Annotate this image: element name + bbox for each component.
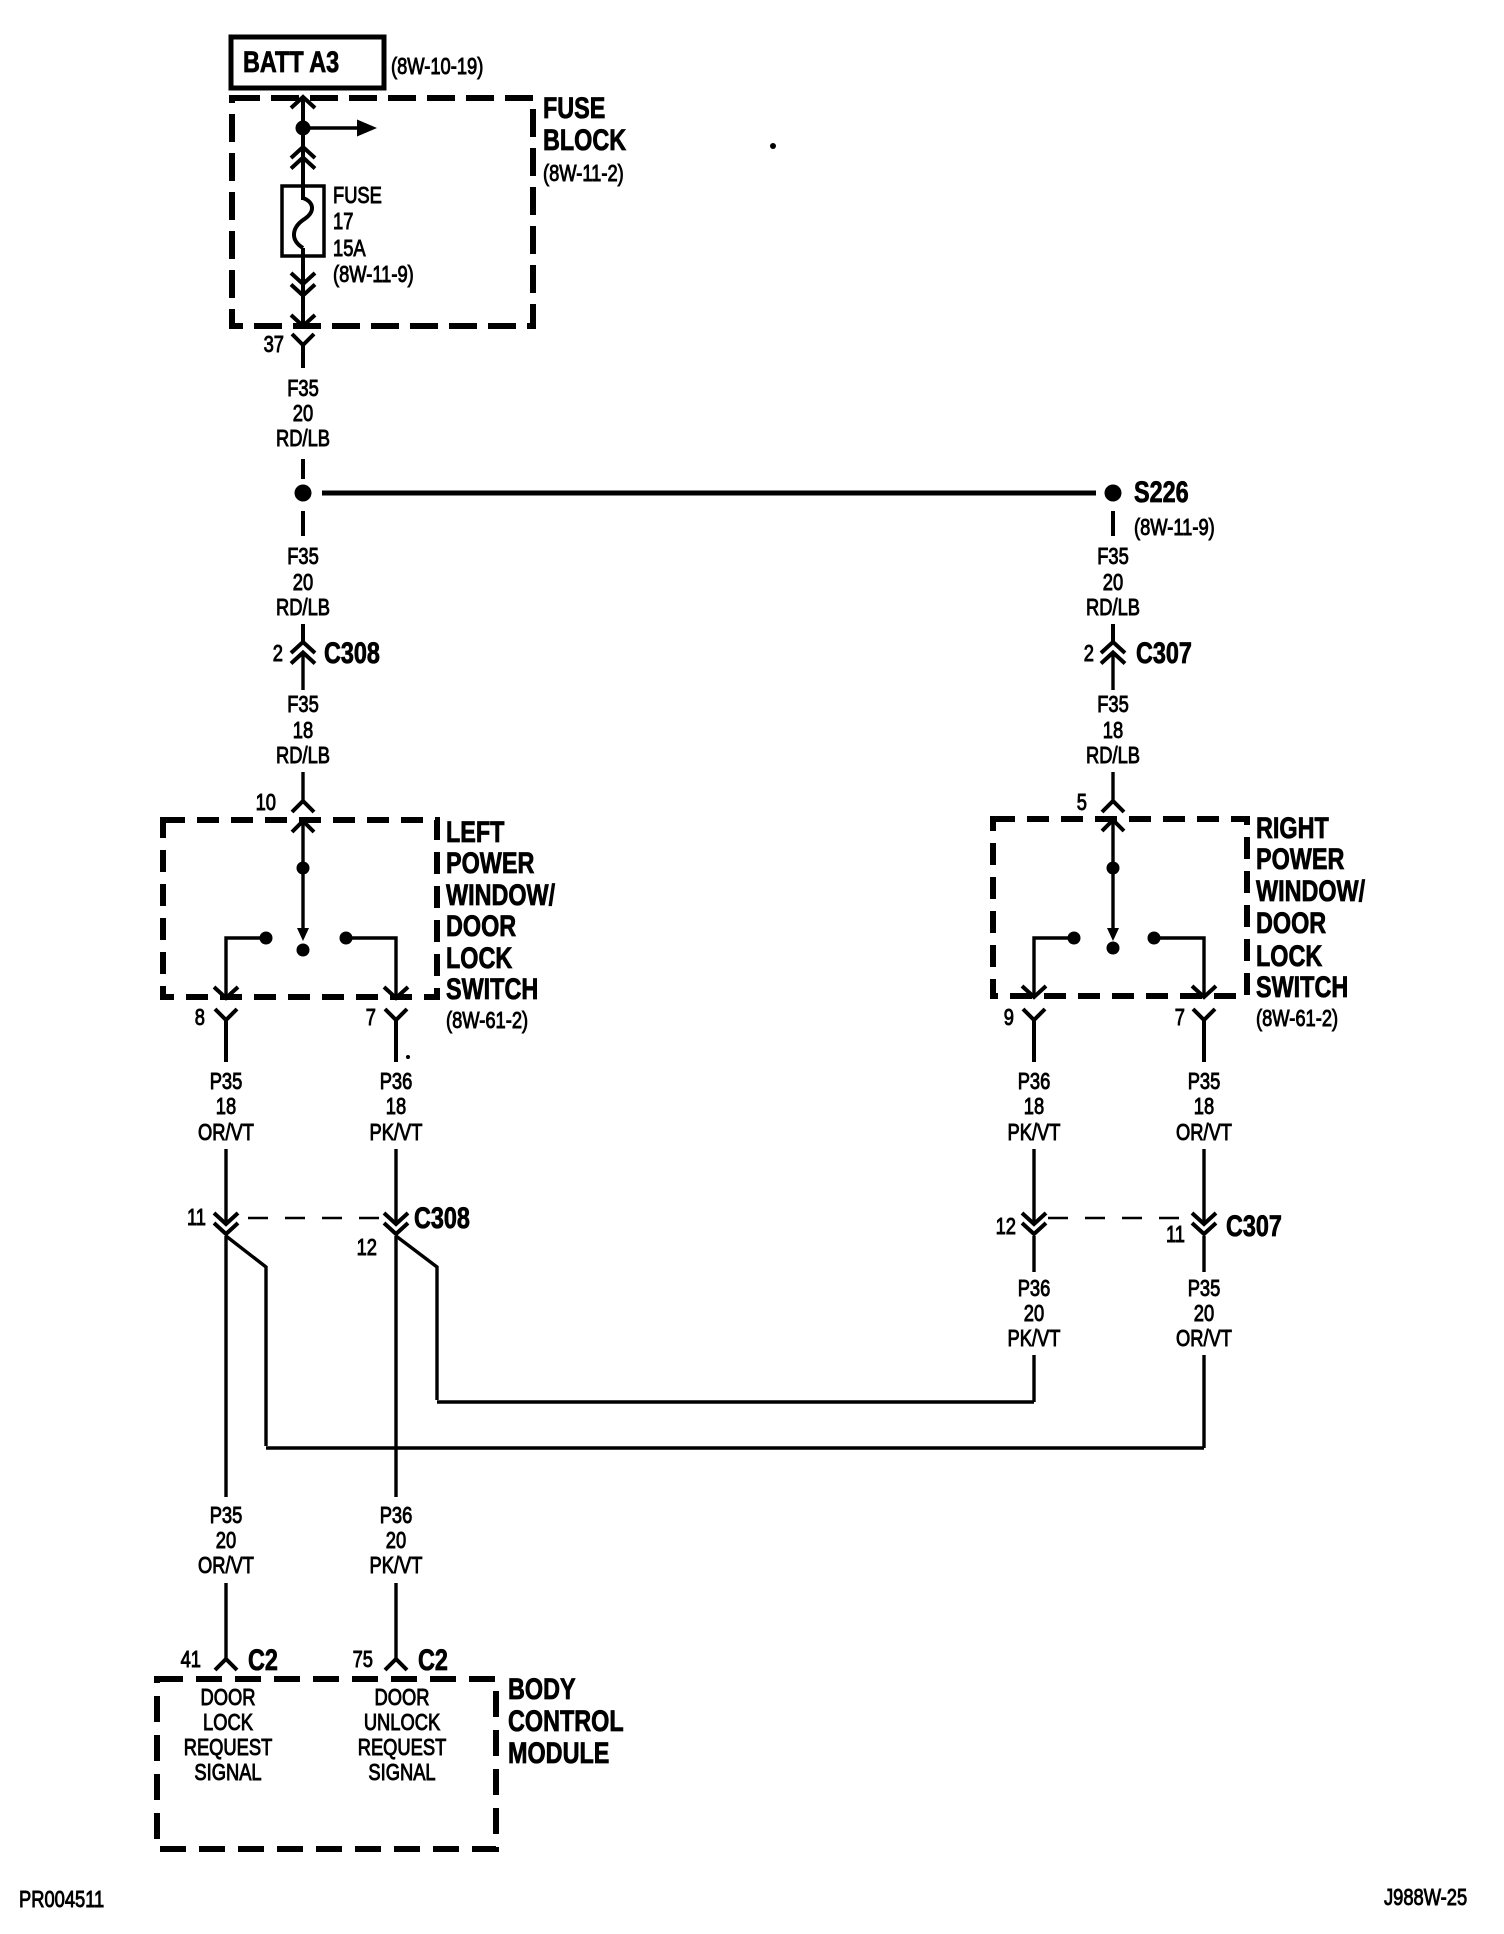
svg-text:LOCK: LOCK [446,941,513,974]
svg-text:BATT A3: BATT A3 [243,45,339,78]
wire label P35 18 OR/VT right [1176,1069,1232,1146]
splice bus wire [322,491,1096,496]
svg-text:RD/LB: RD/LB [1086,743,1140,769]
wire down to BCM pin 75 [394,1236,397,1497]
label (8W-10-19) [391,54,483,80]
connector pin 37 [264,332,314,368]
right power window/door lock switch dashed box [993,819,1247,996]
right switch unlock contact [1022,932,1081,998]
svg-text:10: 10 [256,790,276,816]
svg-text:(8W-11-9): (8W-11-9) [333,262,414,288]
connector pin 5 [1077,772,1124,816]
svg-text:20: 20 [386,1528,406,1554]
left wire label F35 20 RD/LB [276,544,330,621]
svg-text:C2: C2 [418,1643,448,1676]
svg-text:DOOR: DOOR [1256,906,1326,939]
svg-text:LEFT: LEFT [446,815,505,848]
svg-text:FUSE: FUSE [543,91,605,124]
svg-text:P35: P35 [210,1069,243,1095]
connector C307 pin 11 [1166,1213,1216,1248]
connector pin 10 [256,772,314,816]
svg-text:PK/VT: PK/VT [370,1553,423,1579]
svg-text:11: 11 [1166,1222,1185,1248]
wire label P35 20 OR/VT [198,1503,254,1579]
right switch lock contact [1148,932,1217,998]
connector C2 pin 41 [181,1643,278,1676]
left switch lock contact [214,932,273,999]
connector C2 pin 75 [353,1643,448,1676]
svg-text:18: 18 [216,1094,236,1120]
drawing number J988W-25 [1384,1885,1467,1911]
svg-text:20: 20 [293,570,313,596]
splice node left [295,485,312,502]
wire OR/VT crossover [266,1446,1204,1449]
svg-text:F35: F35 [287,692,319,718]
C308 dashed connector line [248,1217,385,1220]
svg-text:S226: S226 [1134,475,1189,508]
svg-text:SWITCH: SWITCH [446,972,538,1005]
svg-text:18: 18 [1194,1094,1214,1120]
svg-text:12: 12 [996,1214,1016,1240]
svg-text:SWITCH: SWITCH [1256,970,1348,1003]
connector C307 label [1226,1209,1282,1242]
svg-text:PR004511: PR004511 [19,1887,104,1913]
C307 dashed connector line [1048,1217,1190,1220]
door unlock request signal label [358,1685,447,1786]
svg-text:18: 18 [386,1094,406,1120]
door lock request signal label [184,1685,273,1786]
svg-text:P35: P35 [210,1503,243,1529]
svg-text:17: 17 [333,209,353,235]
left power window/door lock switch dashed box [163,820,437,997]
svg-text:(8W-61-2): (8W-61-2) [1256,1006,1338,1032]
svg-text:P35: P35 [1188,1276,1221,1302]
svg-text:20: 20 [293,401,313,427]
fuse F17 15A symbol [282,186,324,256]
wire with double chevron to fuse [291,132,315,200]
wire label P35 20 OR/VT right [1176,1276,1232,1352]
svg-text:(8W-61-2): (8W-61-2) [446,1008,528,1034]
svg-text:20: 20 [1024,1301,1044,1327]
svg-text:20: 20 [216,1528,236,1554]
svg-text:PK/VT: PK/VT [1008,1326,1061,1352]
svg-text:CONTROL: CONTROL [508,1704,624,1737]
left wire label F35 18 RD/LB [276,692,330,769]
svg-text:DOOR: DOOR [201,1685,256,1711]
wire label P35 18 OR/VT [198,1069,254,1146]
fuse block name label [543,91,627,186]
connector C308 label [414,1201,470,1234]
svg-text:41: 41 [181,1647,201,1673]
svg-text:C307: C307 [1136,636,1192,669]
connector C307 pin 2 [1084,624,1192,690]
svg-text:F35: F35 [1097,544,1129,570]
svg-text:RD/LB: RD/LB [276,743,330,769]
svg-text:P36: P36 [380,1503,413,1529]
svg-text:12: 12 [357,1235,377,1261]
svg-text:BODY: BODY [508,1672,576,1705]
svg-text:OR/VT: OR/VT [1176,1120,1232,1146]
wire to C308 pin 11 [224,1149,227,1224]
svg-text:C308: C308 [414,1201,470,1234]
left switch pin 8 [195,1005,237,1062]
right wire label F35 18 RD/LB [1086,692,1140,769]
svg-text:DOOR: DOOR [446,909,516,942]
connector C308 pin 11 [187,1205,238,1234]
svg-text:(8W-11-2): (8W-11-2) [543,161,624,187]
connector C308 pin 12 [357,1213,408,1261]
svg-text:(8W-10-19): (8W-10-19) [391,54,483,80]
wire arrow up into BATT A3 [291,97,315,124]
svg-text:BLOCK: BLOCK [543,123,627,156]
wire OR/VT to crossover [1202,1355,1205,1448]
svg-text:7: 7 [1175,1005,1185,1031]
battery feed box BATT A3 [231,37,384,88]
svg-text:WINDOW/: WINDOW/ [1256,874,1366,907]
svg-text:20: 20 [1194,1301,1214,1327]
svg-text:15A: 15A [333,236,366,262]
wire C307 pin 11 down [1202,1236,1205,1272]
wire to C308 pin 12 [394,1149,397,1224]
right wire label F35 20 RD/LB [1086,544,1140,621]
svg-text:SIGNAL: SIGNAL [194,1760,261,1786]
svg-text:75: 75 [353,1647,373,1673]
connector C308 pin 2 [273,624,380,690]
wire label P36 20 PK/VT [370,1503,423,1579]
svg-text:5: 5 [1077,790,1087,816]
svg-text:OR/VT: OR/VT [198,1553,254,1579]
arrow out of fuse block [291,315,315,326]
body control module name label [508,1672,624,1769]
wire to C307 pin 12 [1032,1149,1035,1224]
right switch lower node [1107,942,1120,955]
svg-text:SIGNAL: SIGNAL [368,1760,435,1786]
svg-text:OR/VT: OR/VT [198,1120,254,1146]
wire C307 pin 12 down [1032,1236,1035,1272]
left switch unlock contact [340,932,409,999]
svg-text:F35: F35 [287,544,319,570]
wire stub above pin 41 [224,1583,227,1659]
svg-text:PK/VT: PK/VT [370,1120,423,1146]
svg-text:C2: C2 [248,1643,278,1676]
svg-text:20: 20 [1103,570,1123,596]
body control module dashed box [157,1679,496,1849]
wire stub below left splice [301,511,305,536]
svg-text:LOCK: LOCK [203,1710,253,1736]
svg-text:8: 8 [195,1005,205,1031]
svg-text:FUSE: FUSE [333,183,382,209]
svg-text:P36: P36 [380,1069,413,1095]
svg-text:WINDOW/: WINDOW/ [446,878,556,911]
svg-text:2: 2 [1084,641,1094,667]
svg-text:P36: P36 [1018,1276,1051,1302]
wire stub above pin 75 [394,1583,397,1659]
svg-text:LOCK: LOCK [1256,939,1323,972]
splice S226 node [1105,475,1189,508]
wire label P36 20 PK/VT right [1008,1276,1061,1352]
connector C307 pin 12 [996,1213,1046,1240]
svg-text:9: 9 [1004,1005,1014,1031]
svg-text:RIGHT: RIGHT [1256,811,1329,844]
svg-text:F35: F35 [1097,692,1129,718]
left switch pole node [297,862,310,875]
left switch wiper arrow [297,874,309,941]
wire OR/VT jog from pin 11 [226,1236,266,1446]
fuse block dashed box [232,98,533,326]
svg-text:11: 11 [187,1205,206,1231]
wire down to BCM pin 41 [224,1236,227,1497]
right switch pin 7 [1175,1005,1215,1062]
fuse value label [333,183,414,288]
wire label F35 20 RD/LB [276,376,330,452]
svg-text:37: 37 [264,332,284,358]
wire with double chevron below fuse [291,248,315,326]
svg-text:REQUEST: REQUEST [184,1735,273,1761]
svg-text:OR/VT: OR/VT [1176,1326,1232,1352]
arrow feed to other circuits [303,120,377,137]
wire stub above splice [301,459,305,479]
ink speck [770,143,776,149]
left switch feed arrow [292,821,314,862]
wire stub below S226 [1111,511,1115,536]
wire label P36 18 PK/VT right [1008,1069,1061,1146]
svg-text:C308: C308 [324,636,380,669]
right switch pole node [1107,862,1120,875]
svg-text:REQUEST: REQUEST [358,1735,447,1761]
svg-text:7: 7 [366,1005,376,1031]
svg-text:2: 2 [273,641,283,667]
left switch pin 7 [366,1005,407,1062]
svg-text:18: 18 [293,718,313,744]
svg-text:18: 18 [1103,718,1123,744]
wire PK/VT jog from pin 12 [396,1236,437,1400]
svg-text:RD/LB: RD/LB [276,595,330,621]
wire PK/VT to crossover [1032,1355,1035,1402]
right switch pin 9 [1004,1005,1045,1062]
wire label P36 18 PK/VT [370,1069,423,1146]
wire to C307 pin 11 [1202,1149,1205,1224]
left switch lower node [297,944,310,957]
right switch name label [1256,811,1366,1031]
svg-text:P36: P36 [1018,1069,1051,1095]
drawing number PR004511 [19,1887,104,1913]
right switch wiper arrow [1107,874,1119,941]
svg-text:POWER: POWER [446,846,534,879]
right switch feed arrow [1102,820,1124,862]
svg-text:MODULE: MODULE [508,1736,609,1769]
svg-text:P35: P35 [1188,1069,1221,1095]
left switch name label [446,815,556,1033]
ink speck 2 [406,1055,410,1059]
svg-text:UNLOCK: UNLOCK [364,1710,440,1736]
svg-text:C307: C307 [1226,1209,1282,1242]
svg-text:(8W-11-9): (8W-11-9) [1134,515,1215,541]
svg-text:POWER: POWER [1256,842,1344,875]
svg-text:DOOR: DOOR [375,1685,430,1711]
svg-text:J988W-25: J988W-25 [1384,1885,1467,1911]
svg-text:18: 18 [1024,1094,1044,1120]
svg-text:RD/LB: RD/LB [1086,595,1140,621]
svg-text:F35: F35 [287,376,319,402]
svg-text:PK/VT: PK/VT [1008,1120,1061,1146]
svg-text:RD/LB: RD/LB [276,426,330,452]
label (8W-11-9) at S226 [1134,515,1215,541]
junction node in fuse block [296,121,311,136]
wire PK/VT crossover [437,1400,1034,1403]
